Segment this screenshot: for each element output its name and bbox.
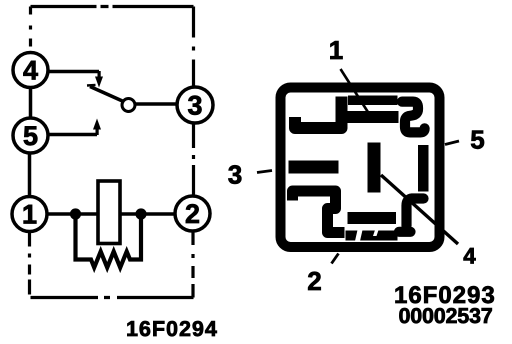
wire 1 to 2 xyxy=(45,212,176,216)
leader line 2 xyxy=(332,254,339,264)
terminal 5 slot right bar xyxy=(418,145,429,192)
terminal 1 digit xyxy=(24,205,37,224)
leader line 1 xyxy=(341,69,370,115)
dash-dot enclosure border bottom xyxy=(31,296,194,299)
label 2 xyxy=(308,272,321,290)
terminal slot bottom-left hook xyxy=(293,191,345,233)
terminal 1 slot lower bar xyxy=(348,111,399,123)
scan nick in lower bar xyxy=(373,230,379,236)
terminal 4 slot center bar xyxy=(368,143,381,193)
wire 5 to 1 xyxy=(28,152,32,198)
terminal 1 slot upper bar xyxy=(348,96,398,106)
switch pivot contact circle xyxy=(122,99,135,112)
leader line 5 xyxy=(445,141,459,145)
terminal circle 4 xyxy=(13,53,48,88)
terminal circle 1 xyxy=(12,197,47,232)
dash-dot enclosure border right middle xyxy=(192,124,195,195)
label 5 xyxy=(471,131,484,149)
dash-dot enclosure border left lower xyxy=(28,232,31,298)
terminal slot top-left hook xyxy=(295,97,342,129)
leader line 4 xyxy=(381,175,458,244)
figure number 16F0293 xyxy=(396,286,494,303)
terminal 2 slot lower bar xyxy=(346,231,398,241)
terminal slot top-right S hook xyxy=(402,102,425,133)
document number 00002537 xyxy=(399,308,491,323)
dash-dot enclosure border right lower xyxy=(191,231,194,298)
fixed contact arrow (up) xyxy=(93,119,101,136)
label 1 xyxy=(330,41,342,59)
wire pivot to terminal 3 xyxy=(136,102,178,106)
dash-dot enclosure border right upper xyxy=(192,7,195,87)
junction dot left xyxy=(70,208,81,219)
terminal slot bottom-right S hook xyxy=(399,199,424,232)
wire 4 to 5 xyxy=(29,52,33,118)
dash-dot enclosure border left upper xyxy=(29,7,32,52)
terminal circle 3 xyxy=(177,87,213,123)
terminal 4 digit xyxy=(23,61,38,80)
terminal circle 5 xyxy=(13,118,48,153)
connector body outline xyxy=(281,88,440,248)
fixed contact arrow (down) xyxy=(95,71,103,88)
wire from terminal 4 to fixed contact xyxy=(48,70,99,74)
terminal circle 2 xyxy=(175,196,210,231)
switch blade xyxy=(90,87,124,102)
figure number 16F0294 xyxy=(127,321,216,336)
label 3 xyxy=(228,165,241,184)
scan break in lower bar xyxy=(355,230,363,241)
label 4 xyxy=(464,248,476,264)
dash-dot enclosure border top xyxy=(31,5,194,8)
terminal 2 slot upper bar xyxy=(348,212,397,224)
switch blade tail tick xyxy=(87,84,96,87)
junction dot right xyxy=(135,208,146,219)
terminal 5 digit xyxy=(24,126,38,145)
terminal 3 slot bar xyxy=(289,161,339,174)
resistor bracket and zigzag xyxy=(76,214,142,268)
terminal 2 digit xyxy=(186,204,199,223)
leader line 3 xyxy=(257,171,272,173)
relay coil xyxy=(98,181,120,244)
terminal 3 digit xyxy=(188,96,201,115)
wire from terminal 5 to fixed contact xyxy=(48,133,97,137)
